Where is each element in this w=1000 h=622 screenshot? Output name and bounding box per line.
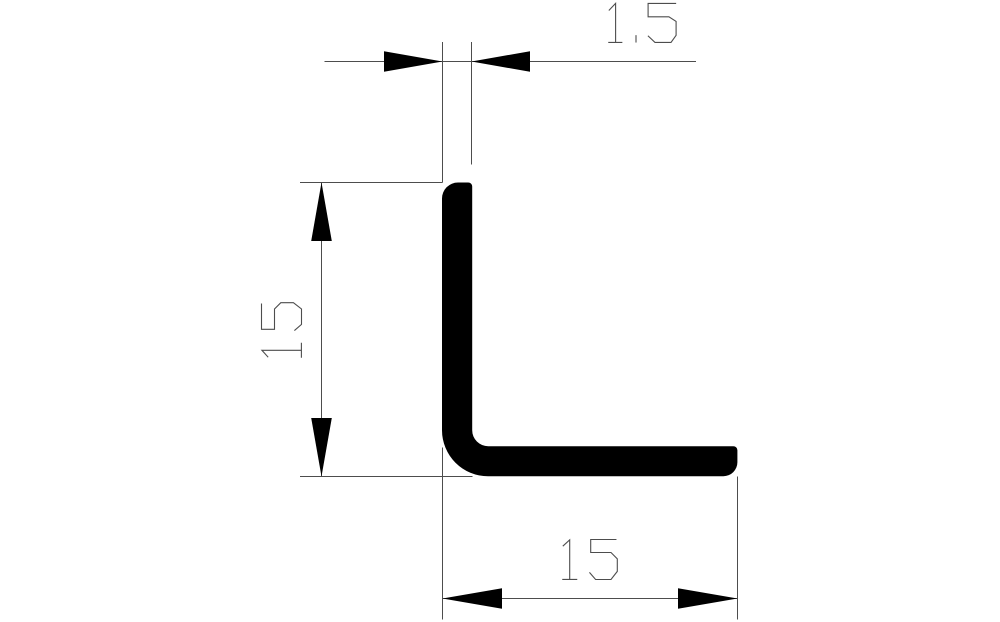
extension line (left dim, bottom, y=476.5) — [300, 476, 473, 478]
left text digit 1 — [262, 343, 302, 357]
extension line (top dim, right, x=471.5) — [471, 42, 473, 165]
dimension text "15" (bottom) : digit 5 — [590, 540, 618, 580]
dimension line (top, 1.5) — [325, 61, 697, 63]
arrowhead bottom dim left (points left) — [443, 588, 503, 609]
left text digit 5 — [262, 303, 302, 331]
dimension line (left, 15) — [321, 183, 323, 477]
arrowhead left dim top (points up) — [311, 183, 332, 242]
arrowhead top dim right (points left) — [472, 51, 531, 72]
dimension line (bottom, 15) — [443, 598, 738, 600]
extension line (bottom dim, left, x=442.5) — [442, 448, 444, 620]
dimension text "15" (left, rotated 90 CCW) — [262, 303, 302, 358]
dimension text "1.5" (top) : decimal point — [635, 36, 637, 42]
dimension text "1.5" (top) : digit 5 — [648, 3, 676, 42]
extension line (left dim, top, y=182.5) — [300, 182, 443, 184]
arrowhead top dim left (points right) — [384, 51, 443, 72]
dimension text "1.5" (top) : digit 1 — [609, 3, 622, 42]
extension line (top dim, left, x=442.5) — [442, 42, 444, 183]
arrowhead left dim bottom (points down) — [311, 418, 332, 477]
extension line (bottom dim, right, x=737.5) — [737, 477, 739, 620]
arrowhead bottom dim right (points right) — [678, 588, 738, 609]
dimension text "15" (bottom) : digit 1 — [563, 540, 577, 580]
angle profile 15x15x1.5 (solid black section) — [442, 183, 737, 477]
